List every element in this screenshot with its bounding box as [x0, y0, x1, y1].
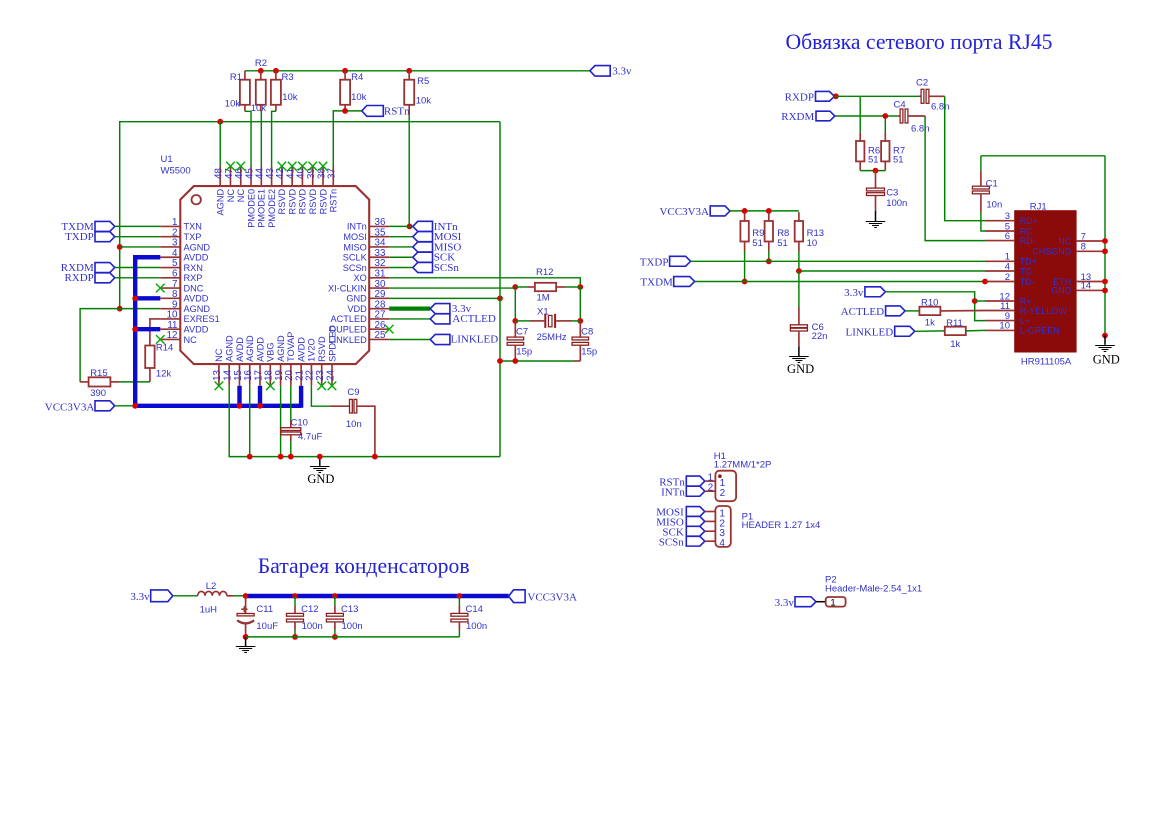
svg-text:TD-: TD- [1020, 277, 1035, 287]
svg-text:3.3v: 3.3v [612, 66, 632, 78]
svg-text:XO: XO [354, 273, 367, 283]
svg-text:RSVD: RSVD [308, 189, 318, 215]
svg-text:RD+: RD+ [1020, 216, 1038, 226]
svg-text:AGND: AGND [245, 335, 255, 362]
svg-text:C1: C1 [986, 179, 998, 190]
svg-text:INTn: INTn [347, 222, 367, 232]
svg-text:R+: R+ [1020, 296, 1032, 306]
svg-text:6.8n: 6.8n [931, 102, 950, 113]
svg-text:10: 10 [999, 321, 1010, 332]
svg-text:RSTn: RSTn [329, 189, 339, 213]
svg-text:GND: GND [346, 294, 367, 304]
svg-text:RSVD: RSVD [318, 189, 328, 215]
svg-text:HR911105A: HR911105A [1021, 357, 1072, 368]
svg-text:1k: 1k [950, 339, 960, 350]
svg-text:CHSGND: CHSGND [1032, 247, 1072, 257]
svg-text:ACTLED: ACTLED [841, 306, 884, 318]
svg-text:390: 390 [90, 388, 106, 399]
svg-text:C7: C7 [516, 326, 528, 337]
svg-text:RXDP: RXDP [785, 91, 814, 103]
svg-text:RXN: RXN [184, 263, 203, 273]
svg-text:NC: NC [226, 189, 236, 203]
svg-text:3.3v: 3.3v [844, 287, 864, 299]
svg-text:C8: C8 [581, 327, 593, 338]
svg-text:TXN: TXN [184, 222, 202, 232]
svg-text:R5: R5 [417, 76, 429, 87]
svg-text:37: 37 [327, 168, 338, 179]
svg-text:12: 12 [167, 330, 178, 341]
svg-text:3.3v: 3.3v [130, 591, 150, 603]
svg-text:4: 4 [1005, 261, 1010, 272]
svg-text:R1: R1 [230, 72, 242, 83]
svg-text:AVDD: AVDD [255, 337, 265, 362]
svg-text:VCC3V3A: VCC3V3A [527, 592, 577, 604]
svg-text:4.7uF: 4.7uF [298, 432, 322, 443]
svg-text:SCSn: SCSn [434, 262, 460, 274]
svg-text:C9: C9 [347, 387, 359, 398]
svg-text:1: 1 [830, 597, 835, 608]
svg-text:AVDD: AVDD [184, 325, 209, 335]
svg-text:24: 24 [325, 369, 336, 380]
svg-text:RC: RC [1020, 226, 1033, 236]
svg-text:C11: C11 [256, 604, 273, 615]
svg-text:PMODE2: PMODE2 [267, 189, 277, 228]
svg-text:NC: NC [214, 348, 224, 362]
svg-text:PMODE1: PMODE1 [257, 189, 267, 228]
svg-text:AGND: AGND [184, 242, 211, 252]
svg-text:TXDP: TXDP [640, 256, 669, 268]
svg-text:10k: 10k [416, 96, 432, 107]
svg-text:W5500: W5500 [161, 166, 191, 177]
svg-text:INTn: INTn [661, 486, 685, 498]
svg-text:Обвязка сетевого порта RJ45: Обвязка сетевого порта RJ45 [785, 30, 1052, 54]
svg-text:NC: NC [1058, 236, 1071, 246]
svg-text:DNC: DNC [184, 283, 204, 293]
svg-text:1V2O: 1V2O [307, 338, 317, 362]
svg-text:ACTLED: ACTLED [331, 314, 368, 324]
svg-text:2: 2 [720, 488, 726, 499]
svg-text:C4: C4 [894, 100, 906, 111]
svg-text:R4: R4 [351, 72, 363, 83]
svg-text:VCC3V3A: VCC3V3A [659, 206, 709, 218]
svg-text:GND: GND [1093, 352, 1120, 366]
svg-text:1k: 1k [925, 318, 935, 329]
svg-text:51: 51 [893, 155, 904, 166]
svg-text:22n: 22n [812, 331, 828, 342]
svg-text:51: 51 [777, 238, 788, 249]
svg-text:ACTLED: ACTLED [452, 313, 495, 325]
svg-text:VBG: VBG [266, 342, 276, 361]
svg-text:RSVD: RSVD [287, 189, 297, 215]
svg-text:RJ1: RJ1 [1030, 201, 1047, 212]
svg-text:SCSn: SCSn [343, 263, 367, 273]
svg-text:AGND: AGND [216, 189, 226, 216]
svg-text:100n: 100n [886, 198, 907, 209]
svg-text:RSVD: RSVD [317, 336, 327, 362]
svg-text:4: 4 [719, 538, 725, 549]
svg-text:TXDP: TXDP [65, 231, 94, 243]
svg-text:25: 25 [375, 330, 386, 341]
svg-text:C2: C2 [916, 78, 928, 89]
svg-text:15p: 15p [581, 346, 597, 357]
svg-text:Header-Male-2.54_1x1: Header-Male-2.54_1x1 [825, 584, 922, 595]
svg-text:AGND: AGND [224, 335, 234, 362]
svg-text:25MHz: 25MHz [537, 332, 567, 343]
svg-text:MOSI: MOSI [343, 232, 366, 242]
svg-text:VDD: VDD [347, 304, 367, 314]
svg-text:15p: 15p [516, 346, 532, 357]
svg-text:100n: 100n [466, 621, 487, 632]
svg-text:6: 6 [1005, 231, 1010, 242]
svg-text:6.8n: 6.8n [911, 124, 930, 135]
svg-text:RSVD: RSVD [277, 189, 287, 215]
svg-text:AVDD: AVDD [184, 294, 209, 304]
svg-text:EXRES1: EXRES1 [184, 314, 220, 324]
svg-text:GND: GND [787, 362, 814, 376]
svg-text:RSTn: RSTn [384, 106, 410, 118]
svg-text:3.3v: 3.3v [775, 597, 795, 609]
svg-text:XI-CLKIN: XI-CLKIN [328, 283, 367, 293]
svg-text:R11: R11 [946, 318, 963, 329]
svg-text:10n: 10n [986, 200, 1002, 211]
svg-text:100n: 100n [302, 621, 323, 632]
svg-text:R15: R15 [90, 368, 107, 379]
svg-text:R-YELLOW: R-YELLOW [1020, 306, 1068, 316]
svg-text:51: 51 [868, 155, 879, 166]
svg-text:Батарея конденсаторов: Батарея конденсаторов [258, 554, 470, 578]
svg-text:RXDP: RXDP [64, 272, 93, 284]
svg-text:PMODE0: PMODE0 [246, 189, 256, 228]
svg-text:R3: R3 [282, 72, 294, 83]
svg-text:R12: R12 [536, 267, 553, 278]
svg-text:GND: GND [307, 472, 334, 486]
svg-text:10: 10 [807, 238, 818, 249]
svg-text:RD-: RD- [1020, 236, 1036, 246]
svg-text:51: 51 [752, 238, 763, 249]
svg-text:TXP: TXP [184, 232, 202, 242]
svg-text:TOVAP: TOVAP [286, 332, 296, 362]
svg-text:8: 8 [1081, 242, 1086, 253]
svg-text:R2: R2 [255, 58, 267, 69]
svg-text:U1: U1 [161, 154, 173, 165]
svg-text:2: 2 [708, 483, 714, 494]
svg-text:SCLK: SCLK [343, 253, 368, 263]
svg-text:10k: 10k [225, 98, 241, 109]
svg-text:NC: NC [184, 335, 198, 345]
svg-text:14: 14 [1081, 281, 1092, 292]
svg-text:LINKLED: LINKLED [846, 326, 894, 338]
svg-text:L2: L2 [206, 581, 217, 592]
svg-text:RXP: RXP [184, 273, 203, 283]
svg-text:NC: NC [236, 189, 246, 203]
svg-text:100n: 100n [342, 621, 363, 632]
svg-text:RXDM: RXDM [781, 111, 814, 123]
svg-text:TXDM: TXDM [640, 277, 673, 289]
svg-text:10k: 10k [282, 92, 298, 103]
svg-text:10k: 10k [351, 92, 367, 103]
svg-text:C12: C12 [301, 604, 318, 615]
svg-text:12k: 12k [156, 369, 172, 380]
svg-text:2: 2 [1005, 272, 1010, 283]
svg-text:AGND: AGND [184, 304, 211, 314]
svg-text:X1: X1 [537, 306, 549, 317]
svg-text:1uH: 1uH [200, 604, 218, 615]
svg-text:10uF: 10uF [256, 621, 278, 632]
svg-text:R14: R14 [156, 343, 173, 354]
svg-text:1M: 1M [537, 292, 550, 303]
svg-text:TC: TC [1020, 266, 1032, 276]
svg-text:L+: L+ [1020, 316, 1030, 326]
svg-text:AVDD: AVDD [296, 337, 306, 362]
svg-text:LINKLED: LINKLED [451, 334, 499, 346]
svg-text:GND: GND [1051, 286, 1072, 296]
svg-text:SCSn: SCSn [659, 536, 685, 548]
svg-text:SPDLED: SPDLED [327, 325, 337, 362]
svg-text:TD+: TD+ [1020, 257, 1037, 267]
svg-text:L-GREEN: L-GREEN [1020, 326, 1060, 336]
svg-text:C14: C14 [466, 604, 483, 615]
svg-text:HEADER 1.27 1x4: HEADER 1.27 1x4 [742, 520, 821, 531]
svg-text:MISO: MISO [343, 242, 366, 252]
svg-text:10k: 10k [251, 103, 267, 114]
svg-text:R10: R10 [921, 298, 938, 309]
svg-text:VCC3V3A: VCC3V3A [45, 402, 95, 414]
svg-text:C10: C10 [291, 418, 308, 429]
svg-text:RSVD: RSVD [298, 189, 308, 215]
svg-text:10n: 10n [346, 419, 362, 430]
svg-text:AVDD: AVDD [235, 337, 245, 362]
svg-text:C13: C13 [341, 604, 358, 615]
svg-text:1.27MM/1*2P: 1.27MM/1*2P [714, 460, 772, 471]
svg-text:AVDD: AVDD [184, 253, 209, 263]
svg-text:AGND: AGND [276, 335, 286, 362]
